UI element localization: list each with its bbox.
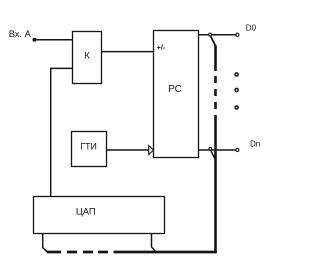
- wire bus bottom solid: [114, 251, 217, 254]
- svg-text:К: К: [84, 50, 90, 61]
- register-counter РС: [154, 31, 199, 158]
- DAC ЦАП: [34, 197, 165, 234]
- wire К output to РС input: [102, 51, 154, 53]
- clock generator ГТИ: [72, 132, 107, 167]
- comparator К: [73, 32, 102, 84]
- wire bus riser from D0 junction: [211, 36, 216, 46]
- svg-text:D0: D0: [246, 23, 257, 32]
- svg-text:+/-: +/-: [157, 45, 166, 52]
- svg-text:РС: РС: [168, 84, 182, 95]
- svg-text:Dn: Dn: [250, 140, 260, 149]
- svg-text:ЦАП: ЦАП: [76, 207, 96, 217]
- wire РС output to D0 terminal: [199, 34, 236, 36]
- svg-text:ГТИ: ГТИ: [80, 142, 96, 152]
- node Вх.А input dot: [33, 38, 37, 42]
- wire bus tap at Dn: [211, 150, 215, 158]
- wire bus bottom dashed: [47, 251, 108, 254]
- wire ЦАП left input from bus: [43, 234, 48, 253]
- terminal dots D1..Dn-1 ellipsis: [235, 73, 238, 109]
- node junction on D0 wire: [209, 33, 212, 36]
- terminal D0: [236, 33, 239, 36]
- wire bus vertical dashed middle: [214, 76, 217, 109]
- terminal Dn: [236, 148, 239, 151]
- wire Вх.А to comparator К: [35, 39, 73, 41]
- wire ЦАП output feedback to К second input: [51, 68, 73, 196]
- node junction on Dn wire: [209, 147, 212, 150]
- wire ЦАП right input from bus: [152, 234, 157, 253]
- wire bus vertical solid lower: [214, 115, 217, 253]
- wire РС output to Dn terminal: [199, 149, 236, 151]
- clock input arrowhead at РС: [149, 146, 154, 155]
- svg-text:Вх. А: Вх. А: [9, 29, 32, 39]
- wire ГТИ clock output to РС: [107, 149, 149, 151]
- wire bus vertical solid upper: [214, 45, 217, 71]
